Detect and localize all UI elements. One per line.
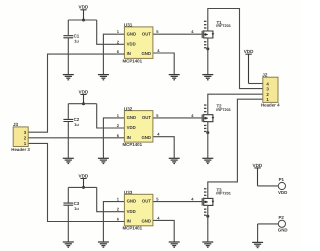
svg-text:VDD: VDD — [278, 190, 287, 195]
svg-text:IN: IN — [127, 219, 131, 224]
svg-text:J3: J3 — [13, 122, 19, 127]
svg-text:MCP1401: MCP1401 — [123, 58, 143, 63]
svg-text:OUT: OUT — [142, 115, 151, 120]
svg-text:1u: 1u — [74, 122, 79, 127]
svg-text:GND: GND — [127, 199, 137, 204]
svg-text:VDD: VDD — [244, 49, 254, 54]
svg-text:VDD: VDD — [79, 89, 89, 94]
svg-text:VDD: VDD — [253, 163, 263, 168]
svg-text:J2: J2 — [262, 72, 268, 77]
svg-text:VDD: VDD — [127, 209, 136, 214]
svg-text:GND: GND — [141, 135, 151, 140]
svg-text:OUT: OUT — [142, 31, 151, 36]
svg-text:Header 4: Header 4 — [261, 102, 280, 107]
svg-text:MCP1401: MCP1401 — [123, 142, 143, 147]
svg-text:GND: GND — [141, 219, 151, 224]
svg-text:IRF7201: IRF7201 — [216, 108, 231, 112]
svg-text:1u: 1u — [74, 38, 79, 43]
svg-text:GND: GND — [127, 115, 137, 120]
svg-text:IN: IN — [127, 135, 131, 140]
svg-text:Header 3: Header 3 — [11, 147, 30, 152]
svg-text:U32: U32 — [124, 106, 133, 111]
svg-text:GND: GND — [278, 228, 288, 233]
svg-text:IN: IN — [127, 51, 131, 56]
svg-text:IRF7201: IRF7201 — [216, 24, 231, 28]
svg-text:IRF7201: IRF7201 — [216, 192, 231, 196]
svg-text:1u: 1u — [74, 206, 79, 211]
svg-text:U33: U33 — [124, 190, 133, 195]
svg-text:U31: U31 — [124, 23, 133, 28]
svg-text:OUT: OUT — [142, 199, 151, 204]
svg-text:VDD: VDD — [79, 174, 89, 179]
svg-text:P2: P2 — [279, 215, 285, 220]
svg-text:P1: P1 — [279, 177, 285, 182]
svg-text:MCP1401: MCP1401 — [123, 226, 143, 231]
svg-text:VDD: VDD — [79, 4, 89, 9]
svg-text:VDD: VDD — [127, 125, 136, 130]
svg-text:GND: GND — [127, 31, 137, 36]
svg-text:GND: GND — [141, 51, 151, 56]
svg-text:VDD: VDD — [127, 42, 136, 47]
